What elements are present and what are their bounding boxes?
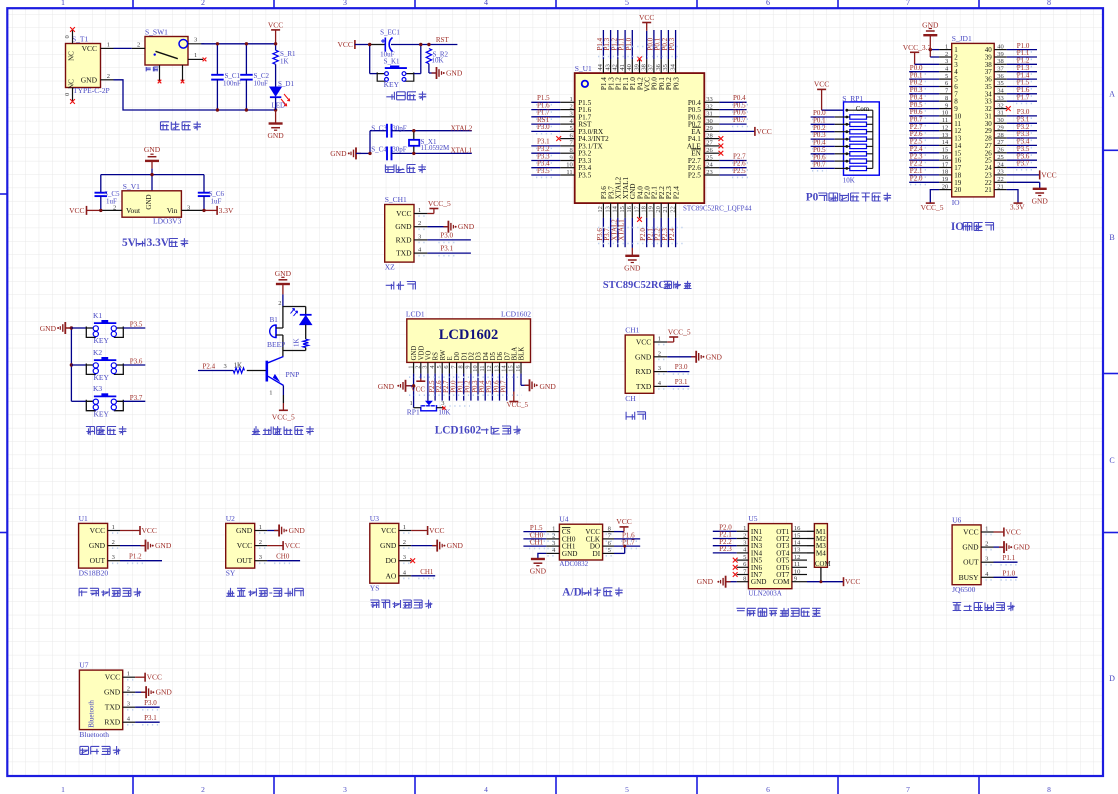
svg-text:VCC: VCC [285, 541, 300, 550]
svg-text:LCD1602: LCD1602 [435, 425, 482, 437]
svg-text:GND: GND [458, 222, 475, 231]
svg-text:14: 14 [794, 540, 801, 547]
svg-text:VCC: VCC [396, 209, 411, 218]
svg-text:2: 2 [415, 365, 422, 368]
svg-text:GND: GND [562, 550, 578, 558]
svg-text:P3.0: P3.0 [144, 699, 157, 707]
svg-text:14: 14 [612, 205, 619, 212]
svg-text:10K: 10K [438, 409, 450, 417]
svg-text:GND: GND [697, 577, 714, 586]
svg-text:3.3V: 3.3V [147, 237, 170, 249]
svg-text:KEY: KEY [384, 80, 400, 89]
svg-text:P2.7: P2.7 [443, 380, 450, 393]
svg-text:VCC_5: VCC_5 [921, 203, 944, 212]
svg-text:3: 3 [224, 363, 227, 370]
svg-text:OUT: OUT [237, 556, 253, 565]
svg-text:5: 5 [625, 0, 629, 7]
svg-text:7: 7 [906, 785, 910, 794]
svg-text:VCC: VCC [963, 528, 978, 537]
svg-text:3: 3 [418, 233, 421, 240]
svg-text:S_C3: S_C3 [371, 124, 387, 132]
svg-text:P0.6: P0.6 [493, 380, 500, 393]
svg-text:17: 17 [942, 161, 949, 168]
svg-text:P1.0: P1.0 [625, 37, 633, 50]
svg-text:3: 3 [422, 365, 429, 368]
svg-text:GND: GND [144, 145, 161, 154]
svg-text:14: 14 [942, 139, 949, 146]
svg-text:2: 2 [259, 539, 262, 546]
svg-text:IO: IO [951, 221, 964, 233]
svg-text:GND: GND [236, 526, 253, 535]
svg-text:P3.5: P3.5 [130, 321, 143, 329]
svg-text:D5: D5 [490, 351, 497, 360]
svg-text:38: 38 [641, 64, 648, 71]
svg-text:6: 6 [766, 785, 770, 794]
svg-text:TXD: TXD [396, 249, 412, 258]
svg-text:6: 6 [443, 365, 450, 368]
svg-text:P2.4: P2.4 [672, 186, 680, 199]
svg-text:STC89C52RC: STC89C52RC [603, 280, 666, 291]
svg-text:39: 39 [997, 51, 1004, 58]
svg-text:33: 33 [706, 96, 713, 103]
svg-text:RS: RS [433, 352, 440, 361]
svg-text:19: 19 [648, 206, 655, 213]
svg-text:13: 13 [493, 365, 500, 371]
svg-text:U3: U3 [370, 514, 379, 523]
svg-text:12: 12 [597, 206, 604, 213]
svg-text:GND: GND [89, 541, 106, 550]
svg-text:VCC: VCC [337, 40, 352, 49]
svg-text:11: 11 [942, 117, 948, 124]
svg-text:P0.1: P0.1 [458, 381, 465, 393]
svg-text:3: 3 [259, 554, 262, 561]
svg-text:D: D [1109, 674, 1115, 683]
svg-text:XTAL1: XTAL1 [618, 219, 626, 241]
svg-text:ULN2003A: ULN2003A [748, 590, 781, 598]
svg-text:35: 35 [997, 80, 1004, 87]
svg-text:12: 12 [486, 365, 493, 371]
svg-text:S_JD1: S_JD1 [952, 34, 972, 43]
svg-text:D2: D2 [469, 351, 476, 360]
svg-text:P1.1: P1.1 [1003, 554, 1016, 562]
svg-text:TYPE-C-2P: TYPE-C-2P [73, 86, 110, 95]
svg-text:2: 2 [127, 686, 130, 693]
svg-text:8: 8 [569, 147, 572, 154]
svg-text:VCC: VCC [1005, 528, 1020, 537]
svg-text:19: 19 [942, 176, 949, 183]
svg-text:14: 14 [501, 365, 508, 372]
svg-text:KEY: KEY [94, 336, 110, 345]
svg-text:GND: GND [706, 352, 723, 361]
svg-text:GND: GND [155, 541, 172, 550]
svg-text:P0: P0 [806, 192, 819, 204]
svg-text:3: 3 [343, 785, 347, 794]
svg-text:16: 16 [942, 154, 949, 161]
svg-text:18: 18 [942, 169, 949, 176]
svg-text:3: 3 [187, 204, 190, 211]
svg-text:GND: GND [446, 69, 463, 78]
svg-text:P3.0: P3.0 [440, 231, 453, 239]
svg-text:1: 1 [418, 207, 421, 214]
svg-text:4: 4 [484, 0, 488, 7]
svg-text:U1: U1 [79, 514, 88, 523]
svg-text:K3: K3 [93, 384, 102, 393]
svg-text:P3.5: P3.5 [578, 172, 591, 180]
svg-text:5V: 5V [122, 237, 137, 249]
svg-text:2: 2 [113, 204, 116, 211]
svg-text:Bluetooth: Bluetooth [87, 700, 95, 728]
svg-text:23: 23 [706, 169, 713, 176]
svg-text:VCC: VCC [756, 127, 771, 136]
svg-text:VCC: VCC [429, 526, 444, 535]
svg-text:VCC: VCC [142, 526, 157, 535]
svg-text:P3.1: P3.1 [440, 245, 453, 253]
svg-text:P0.3: P0.3 [472, 380, 479, 393]
svg-text:1: 1 [127, 671, 130, 678]
svg-text:A/D: A/D [562, 586, 581, 598]
svg-text:23: 23 [997, 169, 1004, 176]
svg-text:29: 29 [997, 125, 1004, 132]
svg-text:7: 7 [906, 0, 910, 7]
svg-text:P2.5: P2.5 [688, 172, 701, 180]
svg-text:2: 2 [201, 785, 205, 794]
svg-text:GND: GND [330, 149, 347, 158]
svg-text:1: 1 [403, 524, 406, 531]
svg-text:U5: U5 [748, 514, 757, 523]
svg-text:VCC: VCC [411, 385, 426, 393]
svg-text:1: 1 [269, 390, 272, 397]
svg-text:3: 3 [945, 58, 948, 65]
svg-text:2: 2 [107, 73, 110, 80]
svg-text:KEY: KEY [94, 410, 110, 419]
svg-text:10: 10 [472, 365, 479, 371]
svg-text:-: - [269, 587, 273, 599]
svg-text:CH1: CH1 [530, 539, 544, 547]
svg-text:13: 13 [604, 206, 611, 213]
svg-text:22: 22 [997, 176, 1004, 183]
svg-text:20: 20 [942, 183, 949, 190]
svg-text:2: 2 [569, 103, 572, 110]
svg-text:P3.0: P3.0 [675, 363, 688, 371]
svg-text:8: 8 [743, 576, 746, 583]
svg-text:VO: VO [426, 350, 433, 360]
svg-text:S_V1: S_V1 [123, 182, 140, 191]
svg-text:RW: RW [440, 349, 447, 360]
svg-text:18: 18 [641, 206, 648, 213]
svg-text:COM: COM [815, 561, 831, 568]
svg-text:43: 43 [604, 64, 611, 71]
svg-text:4: 4 [484, 785, 488, 794]
svg-text:U2: U2 [226, 514, 235, 523]
svg-text:1: 1 [410, 400, 413, 407]
svg-text:9: 9 [945, 102, 948, 109]
svg-text:P3.6: P3.6 [130, 358, 143, 366]
svg-text:3: 3 [403, 554, 406, 561]
svg-text:1: 1 [552, 525, 555, 532]
svg-text:1: 1 [569, 96, 572, 103]
svg-text:VCC: VCC [90, 526, 105, 535]
svg-text:RXD: RXD [104, 718, 120, 727]
svg-text:VCC: VCC [268, 20, 283, 29]
svg-text:P2.5: P2.5 [733, 167, 746, 175]
svg-text:GND: GND [104, 688, 121, 697]
svg-text:B: B [1109, 233, 1114, 242]
svg-text:1: 1 [259, 524, 262, 531]
svg-text:GND: GND [624, 263, 641, 272]
svg-text:P3.1: P3.1 [675, 378, 688, 386]
svg-text:31: 31 [706, 111, 713, 118]
svg-text:21: 21 [662, 206, 669, 213]
svg-text:D0: D0 [454, 351, 461, 360]
svg-text:KEY: KEY [94, 373, 110, 382]
svg-text:B1: B1 [270, 316, 279, 324]
svg-text:XTAL2: XTAL2 [451, 124, 473, 132]
svg-text:28: 28 [997, 132, 1004, 139]
svg-text:1: 1 [407, 365, 414, 368]
svg-text:K2: K2 [93, 348, 102, 357]
svg-text:30: 30 [997, 117, 1004, 124]
svg-text:27: 27 [997, 139, 1004, 146]
svg-text:11.0592M: 11.0592M [421, 144, 450, 152]
svg-text:P3.1: P3.1 [144, 714, 157, 722]
svg-text:34: 34 [669, 63, 676, 70]
svg-text:15: 15 [942, 147, 949, 154]
svg-text:1: 1 [112, 524, 115, 531]
svg-text:P0.3: P0.3 [668, 37, 676, 50]
svg-text:S_CH1: S_CH1 [385, 195, 407, 204]
svg-text:37: 37 [997, 66, 1004, 73]
svg-text:D3: D3 [476, 351, 483, 360]
svg-text:3: 3 [441, 400, 444, 407]
svg-text:S_D1: S_D1 [278, 80, 294, 88]
svg-text:36: 36 [997, 73, 1004, 80]
svg-text:8: 8 [945, 95, 948, 102]
svg-text:P0.7: P0.7 [733, 116, 746, 124]
svg-text:NC: NC [68, 51, 76, 61]
svg-text:17: 17 [633, 205, 640, 212]
svg-text:10: 10 [566, 162, 573, 169]
svg-text:D6: D6 [497, 351, 504, 360]
svg-text:GND: GND [962, 543, 979, 552]
svg-text:1K: 1K [293, 338, 301, 347]
svg-text:DS18B20: DS18B20 [79, 569, 109, 578]
svg-text:GND: GND [380, 541, 397, 550]
svg-text:AO: AO [385, 571, 396, 580]
svg-text:GND: GND [395, 222, 412, 231]
svg-text:VCC: VCC [147, 673, 162, 682]
svg-text:RXD: RXD [396, 235, 412, 244]
svg-text:GND: GND [540, 382, 557, 391]
svg-text:5: 5 [608, 547, 611, 554]
svg-text:41: 41 [619, 64, 626, 71]
svg-text:P2.6: P2.6 [436, 380, 443, 393]
svg-text:U7: U7 [79, 661, 88, 670]
svg-text:P0.0: P0.0 [450, 380, 457, 393]
svg-text:16: 16 [515, 365, 522, 371]
svg-text:BUSY: BUSY [959, 573, 980, 582]
svg-text:13: 13 [794, 547, 801, 554]
svg-text:D7: D7 [504, 351, 511, 360]
svg-text:TXD: TXD [105, 703, 121, 712]
svg-text:YS: YS [370, 584, 380, 593]
svg-text:STC89C52RC_LQFP44: STC89C52RC_LQFP44 [683, 205, 752, 213]
svg-text:GND: GND [1014, 543, 1031, 552]
svg-text:35: 35 [662, 64, 669, 71]
svg-text:5: 5 [743, 554, 746, 561]
svg-text:P2.4: P2.4 [203, 363, 216, 371]
svg-text:Vin: Vin [167, 206, 178, 215]
svg-text:P0.4: P0.4 [479, 380, 486, 393]
svg-text:11: 11 [794, 561, 800, 568]
svg-text:2: 2 [112, 539, 115, 546]
svg-text:21: 21 [997, 183, 1004, 190]
svg-text:25: 25 [997, 154, 1004, 161]
svg-text:P3.0: P3.0 [537, 123, 550, 131]
svg-text:P1.7: P1.7 [1017, 93, 1030, 101]
svg-text:3: 3 [552, 540, 555, 547]
svg-text:5: 5 [625, 785, 629, 794]
svg-text:3: 3 [658, 365, 661, 372]
svg-text:SY: SY [226, 569, 236, 578]
svg-text:S_U1: S_U1 [575, 64, 592, 73]
svg-text:12: 12 [942, 125, 949, 132]
svg-text:36: 36 [655, 63, 662, 70]
svg-text:P2.4: P2.4 [668, 228, 676, 241]
svg-text:P3.7: P3.7 [130, 394, 143, 402]
svg-text:27: 27 [706, 140, 713, 147]
svg-text:LDO3V3: LDO3V3 [153, 217, 182, 226]
svg-text:8: 8 [608, 525, 611, 532]
svg-text:GND: GND [635, 352, 652, 361]
svg-text:COM: COM [773, 578, 790, 586]
svg-text:2: 2 [985, 541, 988, 548]
svg-text:5: 5 [436, 365, 443, 368]
svg-text:10K: 10K [843, 177, 855, 185]
svg-text:2: 2 [743, 532, 746, 539]
svg-text:15: 15 [794, 532, 801, 539]
svg-text:29: 29 [706, 125, 713, 132]
svg-text:K1: K1 [93, 311, 102, 320]
svg-text:3: 3 [985, 556, 988, 563]
svg-text:S_C4: S_C4 [371, 145, 387, 153]
svg-text:20: 20 [954, 186, 962, 194]
svg-text:VCC: VCC [639, 13, 654, 22]
svg-text:2: 2 [658, 350, 661, 357]
svg-text:U4: U4 [559, 515, 568, 524]
svg-text:P0.2: P0.2 [465, 380, 472, 393]
svg-text:P0.7: P0.7 [501, 380, 508, 393]
svg-text:RP1: RP1 [407, 408, 420, 417]
svg-text:DO: DO [385, 556, 396, 565]
svg-text:CH: CH [625, 394, 636, 403]
svg-text:P3.7: P3.7 [1017, 160, 1030, 168]
svg-text:C: C [1109, 456, 1114, 465]
svg-text:VCC_5: VCC_5 [428, 199, 451, 208]
svg-text:20: 20 [655, 206, 662, 213]
svg-text:TXD: TXD [636, 382, 652, 391]
svg-text:LCD1: LCD1 [406, 310, 425, 319]
svg-text:GND: GND [145, 194, 153, 209]
svg-text:11: 11 [566, 169, 572, 176]
svg-text:1: 1 [985, 526, 988, 533]
svg-text:28: 28 [706, 132, 713, 139]
svg-text:IO: IO [952, 198, 960, 207]
svg-text:15: 15 [508, 365, 515, 371]
svg-text:P2.5: P2.5 [429, 380, 436, 393]
svg-text:P3.5: P3.5 [537, 167, 550, 175]
svg-text:25: 25 [706, 154, 713, 161]
svg-text:30pF: 30pF [392, 124, 407, 132]
svg-text:OUT: OUT [90, 556, 106, 565]
svg-text:A: A [1109, 90, 1115, 99]
svg-text:9: 9 [794, 576, 797, 583]
svg-text:32: 32 [706, 103, 713, 110]
svg-text:RXD: RXD [635, 367, 651, 376]
svg-text:21: 21 [985, 186, 993, 194]
svg-text:38: 38 [997, 58, 1004, 65]
svg-text:D1: D1 [461, 352, 468, 360]
svg-text:GND: GND [156, 688, 173, 697]
svg-text:24: 24 [706, 162, 713, 169]
svg-text:P0.5: P0.5 [486, 380, 493, 393]
svg-text:1K: 1K [280, 58, 289, 66]
svg-text:Bluetooth: Bluetooth [79, 730, 109, 739]
svg-text:BEEP: BEEP [267, 340, 285, 349]
svg-text:GND: GND [1032, 196, 1049, 205]
svg-text:GND: GND [81, 76, 98, 85]
svg-text:100nF: 100nF [223, 80, 241, 88]
svg-text:10K: 10K [432, 57, 444, 65]
svg-text:1: 1 [945, 43, 948, 50]
svg-text:8: 8 [458, 365, 465, 368]
svg-text:JQ6500: JQ6500 [952, 585, 976, 594]
svg-text:RST: RST [436, 36, 450, 44]
svg-text:10: 10 [942, 110, 949, 117]
svg-text:XZ: XZ [385, 263, 395, 272]
svg-text:10uF: 10uF [254, 80, 269, 88]
svg-text:9: 9 [465, 365, 472, 368]
svg-text:30pF: 30pF [392, 145, 407, 153]
svg-text:P0.7: P0.7 [813, 161, 826, 169]
svg-text:GND: GND [530, 567, 547, 576]
svg-text:M4: M4 [816, 549, 826, 557]
svg-text:LCD1602: LCD1602 [501, 310, 531, 319]
svg-text:30: 30 [706, 118, 713, 125]
svg-text:12: 12 [794, 554, 801, 561]
svg-text:3: 3 [343, 0, 347, 7]
svg-text:37: 37 [648, 63, 655, 70]
svg-text:XTAL1: XTAL1 [451, 146, 473, 154]
svg-text:1: 1 [61, 0, 65, 7]
svg-text:S_T1: S_T1 [72, 35, 89, 44]
svg-text:PNP: PNP [286, 370, 300, 379]
svg-text:GND: GND [40, 324, 57, 333]
svg-text:42: 42 [612, 64, 619, 71]
svg-text:Com: Com [856, 106, 870, 113]
svg-text:31: 31 [997, 110, 1004, 117]
svg-text:8: 8 [1047, 0, 1051, 7]
svg-text:5: 5 [945, 73, 948, 80]
svg-text:3.3V: 3.3V [219, 206, 234, 215]
svg-text:LED: LED [272, 102, 286, 110]
svg-text:40: 40 [997, 43, 1004, 50]
svg-text:Vout: Vout [126, 206, 141, 215]
svg-text:6: 6 [766, 0, 770, 7]
svg-text:40: 40 [626, 64, 633, 71]
svg-text:1uF: 1uF [211, 198, 222, 206]
svg-text:CH1: CH1 [625, 326, 639, 335]
svg-text:1: 1 [61, 785, 65, 794]
